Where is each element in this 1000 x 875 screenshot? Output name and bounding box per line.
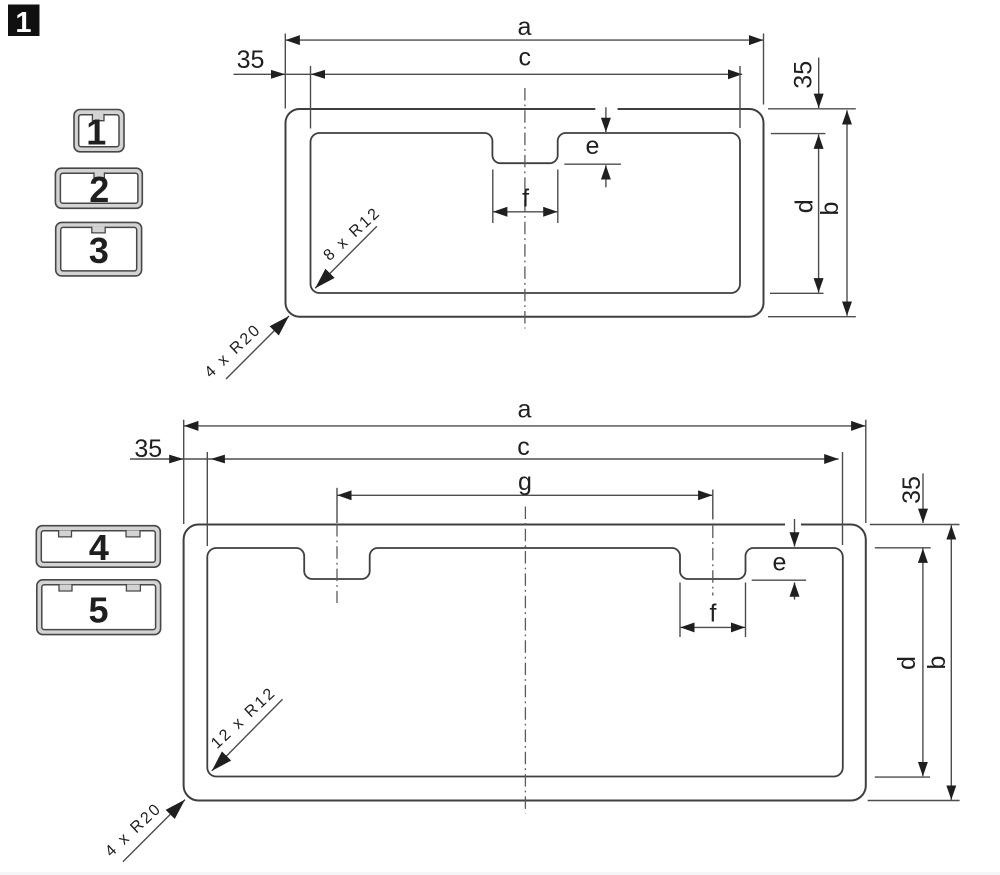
dim a (bottom): dimension line <box>184 425 866 427</box>
gap in outer top edge for e dimension (bottom) <box>785 521 801 528</box>
35 arrow (bottom left) <box>169 455 183 464</box>
c left arrow (top) <box>311 70 325 79</box>
svg-text:f: f <box>710 600 717 628</box>
dim f (bottom): extension lines <box>679 583 681 638</box>
svg-text:35: 35 <box>790 61 818 89</box>
svg-text:c: c <box>519 44 532 72</box>
svg-text:4: 4 <box>89 527 109 568</box>
dim c (bottom): extension lines <box>206 452 208 546</box>
dim e (top): upper arrow <box>605 107 607 132</box>
svg-text:d: d <box>791 199 819 213</box>
dim a (bottom): extension lines <box>183 420 185 524</box>
gap in outer top edge for e dimension <box>595 106 617 113</box>
35 right (top): line with down arrow <box>818 58 820 108</box>
notch bottom extension (bottom) <box>752 579 807 581</box>
svg-text:f: f <box>522 184 529 212</box>
svg-text:12 x R12: 12 x R12 <box>208 684 280 752</box>
callout 8 x R12 (top) <box>315 226 377 288</box>
svg-text:b: b <box>816 202 844 216</box>
callout 4 x R20 (top) <box>226 316 289 379</box>
centerline (bottom drawing) <box>524 507 526 814</box>
svg-text:b: b <box>923 656 951 670</box>
svg-text:e: e <box>586 132 600 160</box>
svg-text:c: c <box>517 433 530 461</box>
dim e (bottom): upper arrow <box>794 519 796 547</box>
dim g (bottom): extension lines <box>336 488 338 523</box>
dim e (bottom): lower arrow <box>794 582 796 599</box>
svg-text:35: 35 <box>237 46 265 74</box>
svg-text:e: e <box>773 549 787 577</box>
dim b (bottom) <box>950 525 952 800</box>
icon 4 <box>36 526 160 568</box>
dim c + 35 (bottom): dimension line <box>130 458 839 460</box>
inner cutout outline with notch (top drawing) <box>311 133 741 293</box>
svg-text:1: 1 <box>15 7 31 39</box>
svg-text:a: a <box>518 396 532 424</box>
right notch centerline (bottom) <box>712 526 714 596</box>
dim g (bottom): dimension line <box>337 494 712 496</box>
bottom page edge strip <box>0 872 1000 875</box>
svg-text:d: d <box>893 656 921 670</box>
35 right (bottom) <box>922 473 924 523</box>
right extension lines (bottom drawing) <box>870 524 960 526</box>
svg-text:35: 35 <box>898 476 926 504</box>
svg-text:5: 5 <box>88 589 108 630</box>
dim b (top) <box>846 110 848 316</box>
svg-text:g: g <box>518 468 532 496</box>
dim f (bottom): dimension line <box>680 626 745 628</box>
svg-text:3: 3 <box>89 230 109 271</box>
c left arrow (bottom) <box>211 455 225 464</box>
dim f (top): dimension line <box>493 211 558 213</box>
svg-text:35: 35 <box>134 435 162 463</box>
svg-text:a: a <box>518 13 532 41</box>
dim c (top): extension lines <box>310 66 312 129</box>
icon 2 <box>55 168 142 210</box>
callout 4 x R20 (bottom) <box>123 800 185 862</box>
dim a (top): extension lines <box>284 34 286 109</box>
outer cutout outline (bottom drawing) <box>184 525 866 801</box>
dim d (bottom) <box>922 549 924 777</box>
icon 1 <box>74 110 124 153</box>
dim f (top): extension lines <box>492 170 494 224</box>
35 arrow (top left) <box>271 70 285 79</box>
svg-text:2: 2 <box>89 169 109 210</box>
svg-text:8 x R12: 8 x R12 <box>321 204 385 264</box>
left notch centerline (bottom) <box>336 524 338 603</box>
dim e (top): lower arrow <box>605 165 607 187</box>
callout 12 x R12 (bottom) <box>212 699 283 771</box>
outer cutout outline (top drawing) <box>286 109 764 317</box>
inner cutout outline with two notches (bottom drawing) <box>207 548 843 777</box>
svg-text:1: 1 <box>86 112 106 153</box>
dim c + 35 (top): dimension line <box>234 73 743 75</box>
notch bottom extension (top) <box>564 163 621 165</box>
dim d (top) <box>818 135 820 293</box>
dim a (top): dimension line <box>286 39 764 41</box>
centerline (top drawing) <box>524 88 526 329</box>
right extension lines (top drawing) <box>768 108 856 110</box>
icon 5 <box>37 580 161 635</box>
badge 1 <box>8 5 40 39</box>
icon 3 <box>56 222 142 276</box>
